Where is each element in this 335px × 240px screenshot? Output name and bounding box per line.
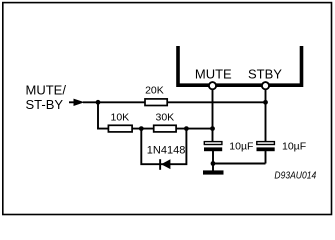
- wire: vertical drop from node A to second row: [97, 102, 99, 128]
- wire: top net from arrow to STBY vertical: [83, 101, 266, 103]
- resistor R1 20K: [145, 99, 167, 106]
- wire: MUTE pin vertical to left capacitor: [212, 86, 214, 142]
- svg-text:10µF: 10µF: [282, 141, 306, 153]
- wire: STBY pin vertical to right capacitor: [265, 86, 267, 142]
- resistor R2 10K: [108, 125, 132, 132]
- svg-text:20K: 20K: [145, 85, 164, 97]
- svg-text:D93AU014: D93AU014: [274, 170, 316, 181]
- svg-text:MUTE: MUTE: [195, 67, 232, 82]
- pin terminal STBY (open circle): [262, 82, 269, 89]
- svg-text:30K: 30K: [156, 111, 175, 123]
- wire: right capacitor bottom drop: [265, 151, 267, 164]
- svg-text:10µF: 10µF: [229, 141, 253, 153]
- svg-text:ST-BY: ST-BY: [26, 97, 64, 112]
- capacitor C2 bottom plate: [257, 147, 275, 151]
- input arrow: [69, 101, 75, 103]
- junction: 30K-diode right: [184, 126, 189, 131]
- junction: top wire to STBY vertical: [263, 100, 268, 105]
- wire: second row (10K/30K) net: [97, 128, 212, 130]
- ground: [203, 170, 224, 174]
- diode D1 1N4148 (cathode bar): [159, 159, 161, 170]
- svg-text:10K: 10K: [111, 111, 130, 123]
- svg-text:MUTE/: MUTE/: [26, 83, 67, 98]
- svg-text:1N4148: 1N4148: [147, 145, 186, 157]
- capacitor C1 top plate: [204, 142, 222, 145]
- resistor R3 30K: [154, 125, 176, 132]
- diode D1 triangle: [161, 159, 170, 169]
- wire: ground stub: [212, 164, 214, 171]
- junction: ground node: [211, 161, 216, 166]
- capacitor C1 bottom plate: [204, 147, 222, 151]
- junction: 10K-30K-diode left: [139, 126, 144, 131]
- wire: left capacitor bottom to ground junction: [212, 151, 214, 164]
- capacitor C2 top plate: [257, 142, 275, 145]
- wire: bottom run between capacitors: [213, 163, 266, 165]
- svg-text:STBY: STBY: [248, 67, 282, 82]
- junction node A (arrow / 20K / 10K split): [96, 100, 101, 105]
- pin terminal MUTE (open circle): [209, 82, 216, 89]
- IC U1 outline (amplifier body, open-top bracket): [178, 46, 302, 85]
- junction: row2 to MUTE vertical: [210, 126, 215, 131]
- wire: diode loop (left drop, bottom run, right rise): [141, 129, 186, 165]
